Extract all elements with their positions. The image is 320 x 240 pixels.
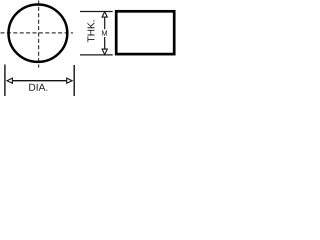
DIA dimension line — [12, 80, 68, 82]
up arrowhead — [102, 12, 107, 18]
right extension line — [73, 65, 75, 96]
background — [0, 0, 179, 102]
vertical dimension line upper segment — [104, 17, 106, 29]
horizontal centerline — [1, 32, 74, 34]
vertical centerline — [38, 1, 40, 68]
circle (front view of disc) — [9, 5, 68, 62]
top tick line — [80, 11, 113, 13]
left extension line — [4, 65, 6, 97]
M label — [102, 30, 107, 35]
THK. label (rotated) — [88, 20, 95, 42]
down arrowhead — [102, 49, 107, 55]
right arrowhead — [67, 78, 72, 83]
left arrowhead — [7, 78, 12, 83]
bottom tick line — [80, 54, 113, 56]
vertical dimension line lower segment — [104, 37, 106, 49]
rectangle (side view of disc) — [116, 11, 174, 54]
DIA. label — [29, 84, 47, 91]
